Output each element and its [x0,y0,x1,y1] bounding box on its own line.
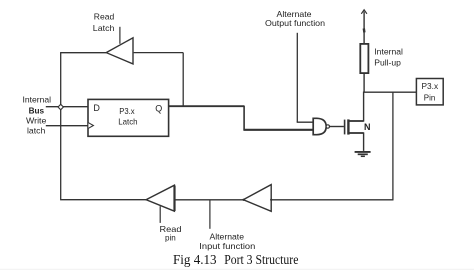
latch U1 P3.x latch box [88,99,169,136]
wire bottom middle segment [175,199,243,201]
node internal-bus / D junction (diamond) [58,104,63,110]
wire pull-up bottom [363,73,365,92]
svg-text:Latch: Latch [93,23,115,33]
wire right side vertical [392,92,394,200]
svg-text:Read: Read [94,12,115,22]
label read pin [160,224,182,242]
label pin box P3.x Pin [422,81,439,102]
svg-text:Output function: Output function [265,18,325,28]
svg-text:pin: pin [165,232,176,242]
wire NAND output to gate [330,126,344,128]
svg-text:P3.x: P3.x [119,106,135,116]
resistor R1 internal pull-up [360,44,368,73]
wire read-pin base edge (thick) [173,186,175,212]
wire Q output [169,105,244,107]
svg-text:Fig 4.13: Fig 4.13 [173,253,217,268]
svg-text:Latch: Latch [118,116,138,126]
caption Fig 4.13 Port 3 Structure [173,253,298,268]
svg-text:Pull-up: Pull-up [374,58,401,68]
svg-text:N: N [364,122,371,132]
label read latch [93,12,115,33]
svg-text:Port 3 Structure: Port 3 Structure [224,253,298,268]
pin clock chevron on latch [88,123,93,129]
transistor Q1 channel bar [347,119,349,134]
svg-text:D: D [93,103,100,113]
wire bottom right segment [271,199,393,201]
svg-text:P3.x: P3.x [422,81,439,91]
wire read-latch enable stub [119,27,121,44]
node alt-input buffer tip dot [242,199,244,201]
wire write-latch clock input [46,125,88,127]
label internal pull-up [374,47,403,68]
wire drain horizontal [349,120,364,122]
buffer read-pin (points left) [146,185,174,211]
label internal bus [23,95,52,136]
node alt-input buffer base dot [270,199,272,201]
wire source horizontal [349,132,364,134]
svg-text:Input function: Input function [199,241,255,251]
buffer read-latch (tri-state, points left) [106,38,133,64]
wire pin net horizontal [363,91,416,93]
ground [355,152,371,156]
nand-gate U2 [313,118,326,134]
wire internal-bus vertical (left) [60,53,62,200]
scan artifact bottom edge [0,269,474,270]
label latch pins and name [93,103,162,127]
wire drain vertical to pin net [363,92,365,122]
label alternate output function [265,9,325,28]
wire top loop left segment [60,52,106,54]
svg-text:Q: Q [155,104,162,114]
svg-text:Internal: Internal [374,47,403,57]
wire read-latch output to corner [134,52,184,54]
wire Q corner vertical [243,106,245,130]
wire alternate-output horizontal to NAND [297,121,314,123]
wire vertical down to Q net [182,53,184,107]
nand-gate output bubble [326,125,329,128]
pin box P3.x pin [416,79,443,105]
transistor Q1 gate bar [344,120,346,135]
buffer alternate-input (points left) [243,185,271,212]
svg-text:Bus: Bus [29,106,45,116]
wire alternate-input label stub [209,200,211,229]
label alternate input function [199,231,255,250]
wire internal bus to D input [46,106,88,108]
wire bottom left segment [60,199,146,201]
svg-text:Internal: Internal [23,95,52,105]
wire Q to NAND input [243,129,313,131]
wire alternate-output vertical [296,33,298,122]
power VCC arrow [361,10,367,44]
wire read-pin label stub [159,206,161,223]
wire source to ground [363,132,365,151]
svg-text:latch: latch [27,126,46,136]
svg-text:Pin: Pin [424,92,436,102]
svg-text:Write: Write [26,116,47,126]
